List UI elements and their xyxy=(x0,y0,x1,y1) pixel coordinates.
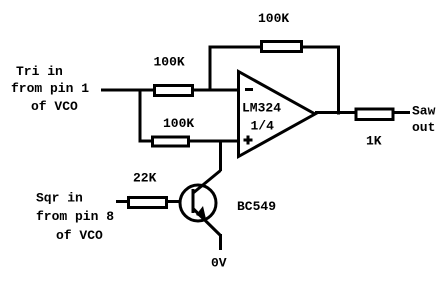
svg-text:BC549: BC549 xyxy=(237,199,276,214)
svg-text:100K: 100K xyxy=(154,55,185,70)
svg-text:from pin 1: from pin 1 xyxy=(11,81,89,96)
svg-text:0V: 0V xyxy=(211,256,227,271)
svg-text:from pin 8: from pin 8 xyxy=(36,209,114,224)
svg-text:of VCO: of VCO xyxy=(31,99,78,114)
svg-text:Sqr in: Sqr in xyxy=(36,191,83,206)
svg-text:22K: 22K xyxy=(133,171,157,186)
svg-text:of VCO: of VCO xyxy=(56,228,103,243)
svg-text:1K: 1K xyxy=(366,134,382,149)
svg-text:100K: 100K xyxy=(258,11,289,26)
svg-text:1/4: 1/4 xyxy=(251,119,275,134)
svg-text:out: out xyxy=(412,120,435,135)
svg-text:100K: 100K xyxy=(163,116,194,131)
svg-text:Saw: Saw xyxy=(412,104,436,119)
svg-text:LM324: LM324 xyxy=(242,101,281,116)
svg-text:Tri in: Tri in xyxy=(16,64,63,79)
